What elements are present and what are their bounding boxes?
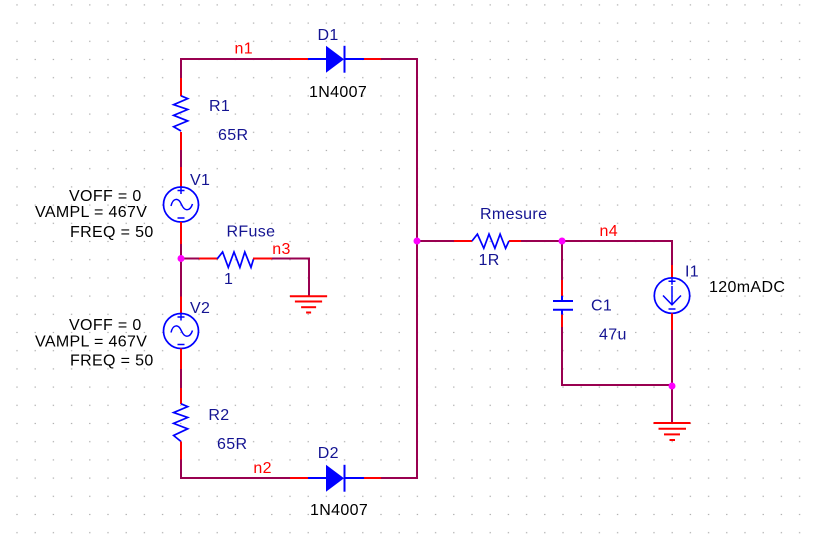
wire: left rail R1 to V1 [180, 150, 182, 167]
junction dot at n3 tap (over wires) [178, 255, 185, 262]
svg-text:FREQ = 50: FREQ = 50 [70, 224, 154, 241]
resistor Rmesure [454, 234, 521, 248]
junction dot at bottom link (over wires) [669, 383, 676, 390]
wire: left rail top (corner to R1) [180, 58, 182, 78]
wire: junction to ground [671, 385, 673, 423]
voltage source V1 [164, 167, 199, 244]
resistor R1 [174, 78, 188, 150]
svg-text:C1: C1 [591, 298, 612, 315]
svg-text:VAMPL = 467V: VAMPL = 467V [35, 204, 147, 221]
svg-text:n3: n3 [272, 241, 291, 258]
diode D1 [290, 46, 381, 73]
svg-text:1R: 1R [479, 252, 500, 269]
svg-text:65R: 65R [218, 127, 248, 144]
wire: bottom rail right segment [381, 477, 417, 479]
svg-text:VAMPL = 467V: VAMPL = 467V [35, 334, 147, 351]
svg-text:1N4007: 1N4007 [310, 502, 368, 519]
wire: C1 branch upper [561, 241, 563, 280]
capacitor C1 [553, 280, 573, 328]
wire: Rmesure to C1 node [521, 240, 562, 242]
junction dot at n4 C1 tap (over wires) [559, 238, 566, 245]
wire: RFuse branch from junction [181, 258, 199, 260]
ground (n3 branch) [290, 296, 327, 312]
svg-text:Rmesure: Rmesure [480, 206, 547, 223]
svg-text:R2: R2 [208, 407, 229, 424]
wire: bottom rail left segment n2 [181, 477, 290, 479]
wire: I1 branch lower [671, 330, 673, 385]
wire: top rail left segment n1 [181, 58, 290, 60]
svg-text:47u: 47u [599, 327, 627, 344]
wire: left rail V1 to V2 through node junction [180, 244, 182, 297]
ground (main) [654, 423, 691, 440]
svg-text:1: 1 [224, 271, 233, 288]
svg-text:n2: n2 [253, 460, 272, 477]
current source I1 [654, 265, 689, 330]
svg-text:FREQ = 50: FREQ = 50 [70, 353, 154, 370]
resistor R2 [174, 388, 188, 460]
wire: I1 branch upper [671, 240, 673, 265]
svg-text:V1: V1 [190, 172, 210, 189]
svg-text:V2: V2 [190, 300, 210, 317]
svg-text:R1: R1 [209, 98, 230, 115]
wire: left rail V2 to R2 [180, 369, 182, 388]
wire: left rail R2 to bottom corner [180, 460, 182, 480]
wire: bus to Rmesure [417, 240, 454, 242]
svg-text:D1: D1 [318, 27, 339, 44]
svg-text:1N4007: 1N4007 [309, 84, 367, 101]
wire: n4 to I1 corner [562, 240, 673, 242]
wire: top rail right segment [381, 58, 417, 60]
wire: right vertical bus [416, 58, 418, 479]
svg-text:D2: D2 [318, 445, 339, 462]
diode D2 [290, 465, 381, 492]
wire: n3 to ground [272, 259, 309, 297]
voltage source V2 [164, 297, 199, 370]
svg-text:n1: n1 [235, 41, 254, 58]
svg-text:I1: I1 [685, 264, 699, 281]
svg-text:VOFF = 0: VOFF = 0 [69, 317, 142, 334]
resistor RFuse [199, 252, 272, 267]
wire: C1 branch lower to bottom link [562, 327, 672, 385]
svg-text:n4: n4 [600, 223, 619, 240]
svg-text:VOFF = 0: VOFF = 0 [69, 188, 142, 205]
svg-text:RFuse: RFuse [227, 224, 276, 241]
junction dot at Rmesure bus tap (over wires) [414, 238, 421, 245]
svg-text:120mADC: 120mADC [709, 279, 785, 296]
svg-text:65R: 65R [217, 436, 247, 453]
